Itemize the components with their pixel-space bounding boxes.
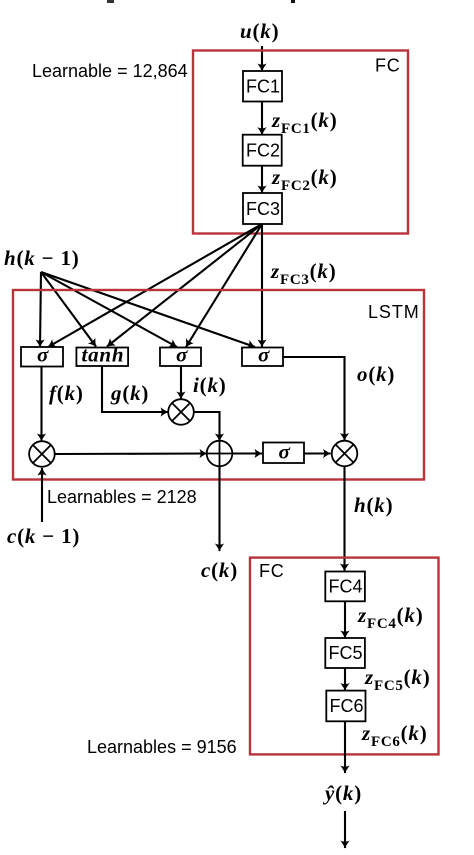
gate sigma4 [263,443,304,464]
svg-text:FC: FC [259,561,285,581]
wire add to sigma4 [232,452,262,454]
svg-text:h(k): h(k) [354,493,393,517]
wire FC2 to FC3 [261,166,263,193]
svg-text:f(k): f(k) [49,381,84,405]
svg-text:c(k − 1): c(k − 1) [7,524,80,548]
wire h(k-1) to sigma2 [41,272,177,347]
svg-text:σ: σ [258,343,270,367]
svg-text:c(k): c(k) [201,558,238,582]
svg-text:i(k): i(k) [193,373,227,397]
svg-text:o(k): o(k) [357,362,395,386]
svg-text:Learnable = 12,864: Learnable = 12,864 [32,61,188,81]
svg-text:g(k): g(k) [110,381,149,405]
mult2 circle (i x g) [168,399,194,425]
wire mult3 to FC4 (h(k)) [343,466,345,571]
block FC6 [326,691,365,722]
block FC1 [243,71,282,102]
wire sigma2 to mult2 [180,366,182,399]
svg-text:u(k): u(k) [240,19,279,43]
wire c(k-1) to mult1 [41,468,43,522]
svg-text:σ: σ [176,343,188,367]
gate sigma2 (input) [160,348,201,367]
svg-text:h(k − 1): h(k − 1) [4,246,80,270]
block FC3 [243,193,282,224]
gate sigma3 (output) [242,348,283,367]
wire h(k-1) to sigma3 [41,272,255,347]
block LSTM (red rectangle) [13,290,424,480]
svg-text:LSTM: LSTM [368,302,420,322]
wire FC5 to FC6 [344,668,346,691]
svg-text:FC1: FC1 [246,77,280,97]
wire sigma1 to mult1 [40,367,42,442]
svg-text:FC6: FC6 [330,696,364,716]
gate tanh [76,348,128,367]
wire h(k-1) to tanh [41,272,96,347]
wire tanh to mult2 [102,366,168,412]
wire u(k) to FC1 [261,46,263,71]
svg-text:FC2: FC2 [246,141,280,161]
mult3 circle (o x) [332,441,358,467]
svg-text:FC3: FC3 [246,199,280,219]
block FC (top red rectangle) [193,51,408,234]
wire add to c(k) [218,466,220,551]
wire FC1 to FC2 [261,102,263,135]
svg-text:Learnables = 2128: Learnables = 2128 [47,487,197,507]
caption fragment left [107,0,114,3]
svg-text:ŷ(k): ŷ(k) [322,781,362,805]
wire FC4 to FC5 [344,601,346,638]
wire FC3 to tanh [107,224,262,347]
svg-text:FC5: FC5 [329,643,363,663]
svg-text:FC: FC [375,56,401,76]
block FC2 [243,135,282,166]
wire yhat output [344,811,346,848]
svg-text:FC4: FC4 [329,577,363,597]
svg-text:tanh: tanh [82,343,125,367]
wire h(k-1) to sigma1 [40,272,41,347]
svg-text:σ: σ [279,440,291,464]
wire sigma4 to mult3 [304,452,331,454]
wire FC3 to sigma2 [186,224,262,347]
wire FC3 to sigma1 [48,224,262,347]
svg-text:σ: σ [37,343,49,367]
add circle [207,441,233,467]
block FC (bottom red rectangle) [250,558,439,755]
wire FC6 to yhat [344,721,346,773]
wire sigma3 to mult3 [283,357,345,441]
gate sigma1 (forget) [21,347,63,367]
mult1 circle (f x c) [29,441,55,467]
wire mult1 to add [55,452,207,455]
caption fragment right [291,0,295,3]
wire FC3 to sigma3 [261,224,263,347]
block FC4 [325,572,365,602]
wire mult2 to add [194,412,220,441]
svg-text:Learnables = 9156: Learnables = 9156 [87,737,237,757]
block FC5 [325,638,365,668]
